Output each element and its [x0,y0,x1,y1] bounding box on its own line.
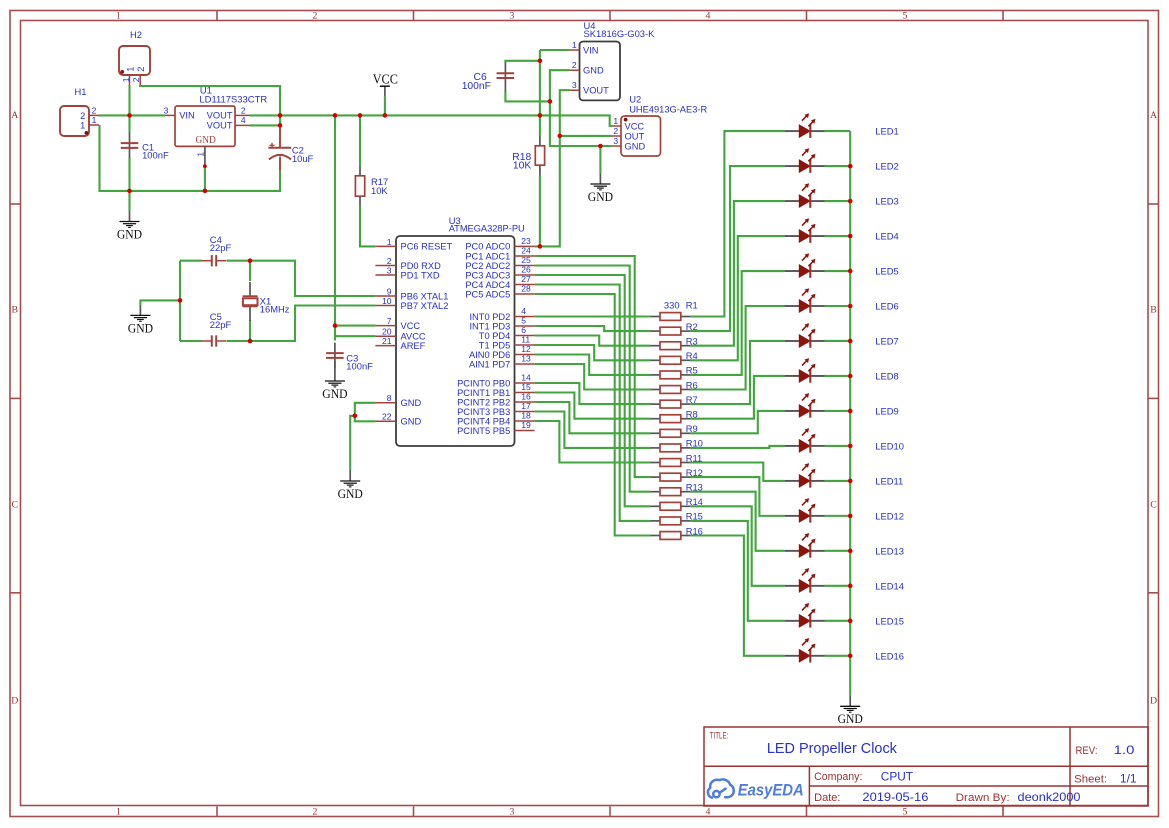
svg-text:INT0 PD2: INT0 PD2 [469,312,510,322]
svg-text:7: 7 [387,316,392,326]
svg-text:1: 1 [613,116,618,126]
svg-text:LED12: LED12 [875,510,904,521]
svg-text:GND: GND [838,711,863,726]
svg-text:PCINT3 PB3: PCINT3 PB3 [457,407,510,417]
svg-text:28: 28 [521,284,531,294]
svg-text:15: 15 [521,382,531,392]
svg-text:GND: GND [117,226,142,241]
svg-text:22pF: 22pF [210,242,232,253]
svg-text:R8: R8 [686,409,698,420]
svg-text:LED9: LED9 [875,405,898,416]
svg-text:2: 2 [613,126,618,136]
svg-text:2: 2 [80,111,85,121]
svg-text:GND: GND [401,417,422,427]
svg-text:16MHz: 16MHz [260,304,290,315]
svg-text:3: 3 [164,105,169,115]
svg-text:PCINT1 PB1: PCINT1 PB1 [457,388,510,398]
svg-text:3: 3 [613,136,618,146]
svg-text:2: 2 [313,807,318,818]
svg-text:Date:: Date: [814,792,840,804]
svg-text:LED10: LED10 [875,440,904,451]
svg-text:PC0 ADC0: PC0 ADC0 [465,242,510,252]
svg-text:14: 14 [521,373,531,383]
svg-text:R2: R2 [686,321,698,332]
svg-text:LED4: LED4 [875,231,898,242]
svg-text:R4: R4 [686,350,698,361]
svg-text:3: 3 [510,807,515,818]
svg-text:LED1: LED1 [875,126,898,137]
svg-text:1/1: 1/1 [1120,771,1137,785]
svg-text:LED14: LED14 [875,580,904,591]
svg-text:13: 13 [521,354,531,364]
svg-text:H1: H1 [75,86,87,97]
svg-text:R15: R15 [686,511,703,522]
svg-text:SK1816G-G03-K: SK1816G-G03-K [584,28,656,39]
svg-text:2: 2 [241,105,246,115]
svg-text:10: 10 [382,296,392,306]
svg-text:C: C [12,500,19,511]
svg-text:ATMEGA328P-PU: ATMEGA328P-PU [449,223,525,234]
svg-text:5: 5 [903,807,908,818]
svg-text:1: 1 [572,40,577,50]
svg-text:330: 330 [664,300,680,311]
svg-text:CPUT: CPUT [881,770,913,784]
svg-text:5: 5 [903,11,908,22]
svg-text:2: 2 [92,105,97,115]
svg-text:LED3: LED3 [875,196,898,207]
svg-text:18: 18 [521,411,531,421]
svg-text:R10: R10 [686,438,703,449]
svg-text:GND: GND [322,386,347,401]
svg-text:B: B [1150,304,1157,315]
svg-text:23: 23 [521,236,531,246]
svg-text:1: 1 [116,807,121,818]
svg-text:3: 3 [572,80,577,90]
svg-text:17: 17 [521,401,531,411]
svg-text:8: 8 [387,393,392,403]
svg-text:VCC: VCC [373,72,398,87]
svg-text:R5: R5 [686,365,698,376]
svg-text:R3: R3 [686,336,698,347]
svg-text:16: 16 [521,392,531,402]
svg-text:PD1 TXD: PD1 TXD [401,270,440,280]
svg-text:4: 4 [521,306,526,316]
svg-text:2: 2 [572,60,577,70]
svg-text:10uF: 10uF [292,153,314,164]
svg-text:6: 6 [521,325,526,335]
svg-text:26: 26 [521,265,531,275]
svg-text:R11: R11 [686,452,703,463]
svg-text:AREF: AREF [401,341,426,351]
svg-text:2: 2 [136,67,146,72]
svg-text:LED2: LED2 [875,161,898,172]
svg-text:1: 1 [387,237,392,247]
svg-text:2: 2 [387,256,392,266]
svg-text:22pF: 22pF [210,319,232,330]
svg-text:25: 25 [521,255,531,265]
svg-text:10K: 10K [513,161,531,172]
svg-text:R14: R14 [686,496,703,507]
svg-text:R16: R16 [686,525,703,536]
svg-text:100nF: 100nF [142,149,169,160]
svg-text:4: 4 [706,807,711,818]
svg-text:24: 24 [521,246,531,256]
svg-text:100nF: 100nF [346,361,373,372]
svg-text:4: 4 [706,11,711,22]
svg-text:LED11: LED11 [875,475,903,486]
svg-text:R6: R6 [686,379,698,390]
svg-text:OUT: OUT [625,131,645,141]
svg-text:PC4 ADC4: PC4 ADC4 [465,280,510,290]
svg-text:PB6 XTAL1: PB6 XTAL1 [401,291,449,301]
svg-text:4: 4 [241,115,246,125]
svg-text:PC1 ADC1: PC1 ADC1 [465,251,510,261]
svg-text:TITLE:: TITLE: [710,731,729,741]
svg-text:LED5: LED5 [875,266,898,277]
svg-text:PCINT4 PB4: PCINT4 PB4 [457,416,510,426]
svg-text:deonk2000: deonk2000 [1018,790,1081,804]
svg-text:LED8: LED8 [875,370,898,381]
svg-text:22: 22 [382,412,392,422]
svg-text:10K: 10K [371,185,388,196]
svg-text:D: D [11,696,18,707]
svg-text:GND: GND [625,141,646,151]
svg-text:Sheet:: Sheet: [1074,773,1107,785]
svg-text:19: 19 [521,420,531,430]
svg-text:PCINT0 PB0: PCINT0 PB0 [457,378,510,388]
svg-text:11: 11 [521,335,530,345]
svg-text:LED16: LED16 [875,650,904,661]
svg-text:Company:: Company: [814,771,862,783]
svg-text:1.0: 1.0 [1114,743,1135,757]
svg-text:PCINT5 PB5: PCINT5 PB5 [457,426,510,436]
svg-text:GND: GND [401,398,422,408]
svg-text:3: 3 [387,265,392,275]
svg-text:LD1117S33CTR: LD1117S33CTR [199,93,267,104]
svg-text:PC5 ADC5: PC5 ADC5 [465,289,510,299]
svg-text:R7: R7 [686,394,698,405]
svg-text:100nF: 100nF [462,81,491,92]
svg-text:VOUT: VOUT [207,121,233,131]
svg-text:2019-05-16: 2019-05-16 [862,790,928,804]
svg-text:C: C [1150,500,1157,511]
svg-text:VOUT: VOUT [207,111,233,121]
svg-text:LED6: LED6 [875,301,898,312]
svg-text:AIN1 PD7: AIN1 PD7 [469,359,510,369]
svg-text:UHE4913G-AE3-R: UHE4913G-AE3-R [629,104,707,115]
svg-text:2: 2 [131,77,141,82]
svg-text:VOUT: VOUT [583,86,609,96]
svg-text:PCINT2 PB2: PCINT2 PB2 [457,397,510,407]
svg-text:T0 PD4: T0 PD4 [479,331,511,341]
svg-text:LED13: LED13 [875,545,904,556]
svg-text:B: B [12,304,19,315]
svg-text:PC6 RESET: PC6 RESET [401,242,453,252]
svg-text:2: 2 [313,11,318,22]
svg-text:A: A [1150,110,1157,121]
svg-text:LED Propeller Clock: LED Propeller Clock [767,741,898,757]
svg-text:H2: H2 [130,29,142,40]
svg-text:GND: GND [588,189,613,204]
svg-text:Drawn By:: Drawn By: [956,792,1010,804]
svg-text:1: 1 [121,77,131,82]
svg-text:3: 3 [510,11,515,22]
svg-text:REV:: REV: [1076,745,1098,757]
svg-text:LED15: LED15 [875,615,904,626]
svg-text:R1: R1 [686,300,698,311]
svg-text:GND: GND [195,134,215,146]
svg-text:T1 PD5: T1 PD5 [479,340,511,350]
svg-text:VCC: VCC [401,321,421,331]
svg-text:GND: GND [338,486,363,501]
svg-text:PD0 RXD: PD0 RXD [401,261,442,271]
svg-text:1: 1 [80,120,85,130]
svg-text:12: 12 [521,344,531,354]
svg-text:1: 1 [116,11,121,22]
svg-text:INT1 PD3: INT1 PD3 [469,321,510,331]
svg-text:27: 27 [521,274,531,284]
svg-text:D: D [1150,696,1157,707]
svg-text:5: 5 [521,316,526,326]
svg-text:PB7 XTAL2: PB7 XTAL2 [401,301,449,311]
svg-text:AIN0 PD6: AIN0 PD6 [469,350,510,360]
svg-text:1: 1 [126,67,136,72]
svg-text:VCC: VCC [625,121,645,131]
svg-text:PC3 ADC3: PC3 ADC3 [465,270,510,280]
svg-text:R13: R13 [686,482,703,493]
svg-text:VIN: VIN [583,45,599,55]
svg-text:LED7: LED7 [875,335,898,346]
svg-text:21: 21 [382,336,392,346]
svg-text:GND: GND [583,66,604,76]
svg-text:EasyEDA: EasyEDA [738,782,804,800]
svg-text:R9: R9 [686,423,698,434]
svg-text:VIN: VIN [179,111,195,121]
svg-text:R12: R12 [686,467,703,478]
svg-text:1: 1 [92,115,97,125]
svg-text:1: 1 [196,152,206,157]
svg-text:GND: GND [128,320,153,335]
svg-text:9: 9 [387,286,392,296]
svg-text:PC2 ADC2: PC2 ADC2 [465,261,510,271]
svg-text:A: A [11,110,18,121]
